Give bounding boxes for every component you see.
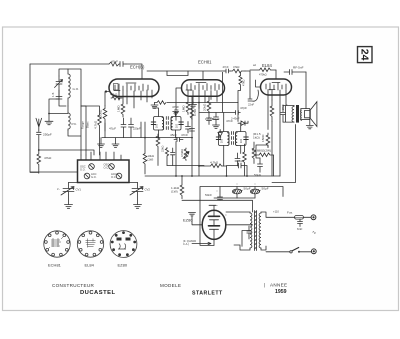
capacitor 45nF inline <box>174 138 183 142</box>
svg-text:47kΩ: 47kΩ <box>44 156 52 160</box>
wire CV2 stem <box>129 182 138 184</box>
wire MF1 bottom leads <box>159 130 176 138</box>
wire AVC bus y102.5 <box>167 102 238 104</box>
capacitor AF <box>171 148 175 166</box>
capacitor 47nF AVC <box>186 122 191 134</box>
wire antenna coupling <box>39 150 94 155</box>
power transformer T-PWR left winding <box>250 213 252 248</box>
wire MF2 top leads <box>224 113 241 167</box>
svg-text:100: 100 <box>240 138 243 143</box>
speaker LS1 <box>305 102 317 127</box>
svg-text:20kΩ: 20kΩ <box>203 103 207 111</box>
tube U2 electrodes <box>186 83 219 91</box>
socket base V3 EZ80 circle <box>110 231 137 258</box>
svg-text:ANNEE: ANNEE <box>270 283 287 288</box>
svg-text:R3 680Ω(2W): R3 680Ω(2W) <box>252 149 271 153</box>
trimmer ACC GO <box>84 173 90 179</box>
svg-text:0.5MΩ: 0.5MΩ <box>180 149 184 157</box>
IF transformer MF2 loop B <box>236 132 247 146</box>
tube U1 electrodes <box>114 83 148 91</box>
ground MF1 secondary top <box>173 112 179 115</box>
wire HT box top <box>200 187 283 213</box>
wire transformer leads <box>226 212 266 250</box>
resistor 4.7k IF <box>190 106 194 120</box>
wire loop jog over tube2 <box>167 71 188 76</box>
resistor tube2 screen <box>207 96 211 114</box>
wire MF1 top leads <box>153 108 176 117</box>
resistor 20k osc grid <box>103 106 107 132</box>
switch S1 <box>266 251 311 253</box>
capacitor 100pF <box>214 113 219 126</box>
trimmer OSC GO <box>89 164 95 170</box>
svg-text:Blanc: Blanc <box>86 121 90 128</box>
svg-text:MODELE: MODELE <box>160 283 181 288</box>
capacitor 2-45nF inline <box>236 111 241 115</box>
svg-text:az: az <box>253 63 257 67</box>
svg-text:G.O.: G.O. <box>91 175 97 179</box>
svg-text:O.C.: O.C. <box>111 175 117 179</box>
capacitor 50nF HT <box>218 187 223 201</box>
svg-text:Rouge: Rouge <box>81 121 85 129</box>
tube U2 pins <box>176 88 217 110</box>
svg-text:20nF: 20nF <box>281 104 285 110</box>
trimmer capacitor on G.O. <box>55 76 63 99</box>
svg-text:4.7kΩ: 4.7kΩ <box>94 120 98 129</box>
transformer T-OUT primary <box>292 106 294 123</box>
svg-text:47kΩ: 47kΩ <box>233 65 239 69</box>
IF transformer MF1 loop B <box>171 117 181 131</box>
svg-text:Fus.: Fus. <box>287 211 293 215</box>
potentiometer volume <box>183 148 189 161</box>
svg-text:47pF: 47pF <box>172 105 179 109</box>
capacitor 5nF coupling top <box>284 70 306 75</box>
variable capacitor CV2 <box>130 183 143 205</box>
svg-text:1.5: 1.5 <box>51 92 55 97</box>
resistor inline on top bus <box>109 62 120 66</box>
number plate 24 <box>358 47 373 63</box>
ground bus left <box>98 138 120 148</box>
svg-text:4.7kΩ: 4.7kΩ <box>193 109 197 116</box>
resistor tube2 grid leak <box>186 100 190 115</box>
coil MF2 B <box>236 133 238 146</box>
socket V3 internals <box>117 238 131 241</box>
svg-text:45nF: 45nF <box>170 133 177 137</box>
svg-text:+110: +110 <box>273 210 279 214</box>
resistor 470k grid EL84 <box>250 68 276 72</box>
node bus junctions <box>191 137 193 139</box>
wire bus y172 <box>145 142 280 177</box>
wire volume bus <box>167 103 204 177</box>
wire IF grid vertical <box>191 96 193 176</box>
svg-text:47kΩ: 47kΩ <box>110 93 118 97</box>
core MF2 <box>231 132 233 145</box>
wire left cadre vertical <box>30 64 78 172</box>
bottom titles <box>52 283 287 297</box>
resistor 47k antenna leak <box>30 150 41 173</box>
resistor 4.7k horizontal <box>204 164 227 168</box>
svg-text:50μF: 50μF <box>244 187 251 191</box>
svg-text:1MΩ: 1MΩ <box>117 105 121 112</box>
wire EL84 bottom network <box>256 122 280 177</box>
capacitor line filter <box>298 219 303 226</box>
labels power supply <box>171 186 316 246</box>
svg-text:10kΩ: 10kΩ <box>148 154 154 158</box>
svg-text:CV1: CV1 <box>76 188 82 192</box>
resistor 10k 1W <box>143 122 147 174</box>
variable capacitor CV1 <box>61 183 74 205</box>
tube U4 plates <box>209 216 220 226</box>
resistor 1.2k filter <box>180 176 252 212</box>
wire primary loop <box>283 106 294 123</box>
svg-text:47μF: 47μF <box>109 127 116 131</box>
svg-text:ECH(B): ECH(B) <box>130 65 145 70</box>
svg-text:G.O.: G.O. <box>80 168 86 172</box>
wire top bus left <box>30 64 142 79</box>
capacitor 250pF antenna <box>37 132 42 150</box>
svg-text:ECH81: ECH81 <box>198 60 212 65</box>
svg-text:G.O.: G.O. <box>73 87 80 91</box>
tube U3 electrodes <box>266 83 286 91</box>
ground tube2 cathode bus <box>151 103 158 109</box>
tube U3 pins <box>256 80 287 130</box>
tube U2 ECH81 envelope <box>182 80 225 97</box>
ground CV2 <box>134 205 142 209</box>
capacitor MF2 A <box>216 137 220 140</box>
capacitor detector <box>235 153 240 166</box>
resistor screen tube2 <box>238 73 242 103</box>
small labels left section <box>43 87 150 192</box>
transformer T-OUT core <box>296 105 299 123</box>
capacitor 50uF cathode <box>258 158 263 172</box>
resistor AVC vertical <box>81 106 101 155</box>
svg-text:22nF: 22nF <box>248 103 254 107</box>
core MF1 <box>166 117 168 130</box>
wire GO box to PC <box>67 106 69 113</box>
wire bus y137.6 <box>102 137 192 139</box>
svg-text:1kΩ): 1kΩ) <box>253 136 260 140</box>
wire plate line y112.5 <box>199 73 238 122</box>
socket base V1 ECH81 circle <box>44 231 70 257</box>
svg-text:100: 100 <box>176 123 179 128</box>
arrow EZ80 note <box>192 242 211 244</box>
capacitor decoupling <box>129 118 134 138</box>
resistor R3 680 horizontal <box>256 153 274 157</box>
tube U4 EZ80 envelope <box>202 210 226 239</box>
power transformer T-PWR core <box>255 211 257 251</box>
terminal mains L <box>311 215 316 220</box>
resistor cathode EL84 <box>266 133 270 148</box>
coil MF1 A <box>162 118 164 130</box>
svg-text:(1W): (1W) <box>148 158 154 162</box>
svg-text:100pF: 100pF <box>205 117 214 121</box>
resistor AF stopper <box>165 148 168 166</box>
capacitor B+ inline <box>224 69 231 73</box>
labels middle-top <box>99 60 244 162</box>
capacitor coupling tube2 grid <box>175 110 179 120</box>
svg-text:CONSTRUCTEUR: CONSTRUCTEUR <box>52 283 95 288</box>
diode D2 AVC <box>218 130 222 140</box>
svg-text:220pF: 220pF <box>133 127 141 131</box>
svg-text:|: | <box>264 283 265 288</box>
svg-text:6nF: 6nF <box>297 227 302 231</box>
capacitor tone across primary <box>281 106 286 123</box>
wire HT to fuse <box>266 216 295 218</box>
capacitor tube2 screen bypass <box>207 114 212 125</box>
tube U1 grid box <box>114 84 119 91</box>
svg-text:22kΩ: 22kΩ <box>161 146 165 152</box>
ground tube2 cathode <box>190 103 197 108</box>
svg-text:RF-5nF: RF-5nF <box>293 66 304 70</box>
wire EZ80 cathode to HT <box>214 184 255 215</box>
svg-text:O.C.: O.C. <box>104 166 110 170</box>
svg-text:100: 100 <box>156 123 159 128</box>
transformer T-OUT secondary <box>301 109 310 120</box>
node tube1 left pin <box>105 92 109 106</box>
diode detector D1 <box>238 121 248 125</box>
fuse F1 <box>295 216 304 220</box>
wire plate EL84 to transformer <box>286 96 287 105</box>
resistor 47k cathode <box>111 96 122 100</box>
node AVC junctions <box>192 102 194 104</box>
resistor AVC filter vertical <box>252 142 256 164</box>
socket V2 pins <box>78 231 103 256</box>
wire CV1 stem <box>69 182 78 184</box>
svg-text:47pF: 47pF <box>240 106 247 110</box>
resistor tube2 cathode <box>155 101 167 105</box>
socket V3 pins <box>111 231 136 256</box>
coil P.C. winding <box>68 113 70 131</box>
tube U4 pins <box>209 205 253 245</box>
svg-text:EZ80: EZ80 <box>118 263 128 268</box>
svg-text:20kΩ: 20kΩ <box>99 109 103 117</box>
trimmer OSC OC <box>109 164 115 170</box>
socket V1 internals <box>49 237 64 249</box>
socket V1 pins <box>45 231 70 256</box>
svg-text:47nF: 47nF <box>111 60 118 64</box>
svg-text:EL84: EL84 <box>85 263 95 268</box>
coil MF1 B <box>171 118 173 130</box>
wire speaker feed <box>306 72 310 125</box>
capacitor inline x192 <box>190 129 195 132</box>
wire tube2 plate to top <box>147 71 250 80</box>
svg-text:1959: 1959 <box>275 289 287 295</box>
svg-text:P.C.: P.C. <box>72 122 78 126</box>
coil MF2 A <box>227 133 229 146</box>
wire fuse to terminal <box>304 216 312 218</box>
IF transformer MF2 loop A <box>219 132 230 146</box>
svg-text:50μF: 50μF <box>262 187 269 191</box>
svg-text:24: 24 <box>359 49 371 61</box>
capacitor transformer aux <box>247 226 251 239</box>
svg-text:50nF: 50nF <box>205 193 212 197</box>
tube U3 EL84 envelope <box>261 79 292 95</box>
coil G.O. winding <box>68 69 70 106</box>
pins tuning block top <box>81 152 121 160</box>
svg-text:1MΩ: 1MΩ <box>182 105 186 112</box>
capacitor 1.5nF G.O. bottom <box>56 90 62 99</box>
labels right-top <box>161 63 304 177</box>
wire EL84 top grid feed <box>250 70 276 97</box>
resistor detector load vertical <box>243 144 247 176</box>
svg-text:EZ80: EZ80 <box>183 218 193 223</box>
svg-text:47nF: 47nF <box>223 65 229 69</box>
tuning gang block <box>78 160 130 183</box>
resistor grid leak vertical <box>121 102 125 117</box>
svg-text:(1W): (1W) <box>171 190 178 194</box>
ground speaker <box>306 125 313 128</box>
wire oscillator ground branch <box>49 99 68 121</box>
socket base V2 EL84 circle <box>77 231 103 257</box>
capacitor inline on top bus <box>120 62 126 67</box>
svg-text:∿: ∿ <box>312 230 316 236</box>
wire MF2 plate drop <box>222 73 224 113</box>
capacitor grid EL84 <box>248 90 258 101</box>
tube U1 pins <box>119 90 152 108</box>
capacitor 47uF cathode <box>121 118 126 138</box>
svg-text:470kΩ: 470kΩ <box>259 73 267 77</box>
svg-text:DUCASTEL: DUCASTEL <box>80 290 116 296</box>
capacitor MF1 A <box>151 122 155 125</box>
svg-text:47kΩ: 47kΩ <box>242 80 246 86</box>
resistor screen R2 <box>270 100 274 122</box>
ground CV1 <box>65 205 73 209</box>
capacitor MF2 B <box>244 137 248 140</box>
svg-text:ECH81: ECH81 <box>48 263 62 268</box>
svg-text:2-45nF: 2-45nF <box>231 117 240 121</box>
svg-text:47nF: 47nF <box>181 133 188 137</box>
antenna <box>36 118 42 131</box>
socket V2 internals <box>86 239 96 248</box>
coil G.O. tank box <box>59 69 81 106</box>
resistor B+ inline <box>231 69 246 73</box>
power transformer T-PWR right winding <box>259 213 261 248</box>
svg-text:EL84: EL84 <box>262 63 272 68</box>
capacitor C-E1 50uF electrolytic <box>232 189 241 194</box>
ground 100pF <box>213 125 220 128</box>
svg-text:47nF: 47nF <box>237 159 244 163</box>
svg-text:150Ω: 150Ω <box>261 134 265 142</box>
svg-text:C.A.): C.A.) <box>183 242 189 246</box>
ground EZ80 heater <box>189 213 203 225</box>
tube U1 ECH(B) envelope <box>109 79 159 97</box>
ground oscillator <box>45 121 53 124</box>
capacitor MF1 B <box>179 122 183 125</box>
svg-text:STARLETT: STARLETT <box>192 291 223 297</box>
wire PC bottom to block <box>68 106 81 155</box>
svg-text:100: 100 <box>221 138 224 143</box>
capacitor 47nF AF <box>227 163 248 176</box>
wire HT bottom bus <box>200 198 255 245</box>
svg-text:250pF: 250pF <box>43 133 52 137</box>
node antenna junction <box>38 149 40 151</box>
trimmer ACC OC <box>116 173 122 179</box>
capacitor C-E2 50uF electrolytic <box>250 189 259 194</box>
wire secondary leads <box>81 106 86 155</box>
wire tube1 extra pins <box>105 122 141 138</box>
wire screen return <box>272 125 296 183</box>
IF transformer MF1 loop A <box>154 117 164 131</box>
resistor IF secondary return <box>156 134 160 166</box>
svg-text:4.7kΩ: 4.7kΩ <box>210 161 219 165</box>
svg-text:50μF: 50μF <box>254 173 261 177</box>
svg-text:CV2: CV2 <box>145 188 151 192</box>
terminal mains N <box>311 249 316 254</box>
